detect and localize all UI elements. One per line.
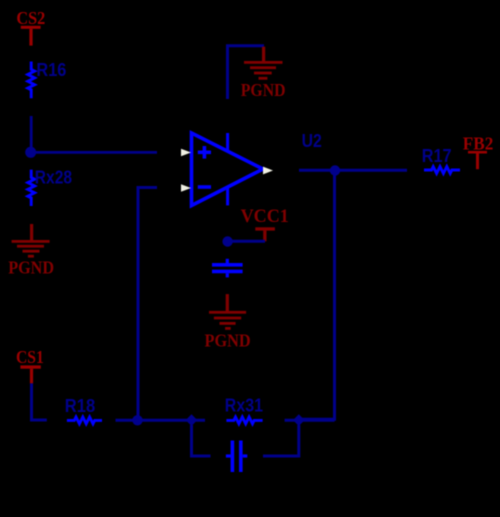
node: [186, 414, 198, 426]
ground PGND top: [241, 47, 286, 100]
input pin arrow (+): [181, 149, 191, 156]
svg-text:PGND: PGND: [241, 80, 286, 100]
svg-text:PGND: PGND: [8, 258, 54, 278]
svg-text:Rx31: Rx31: [225, 396, 263, 416]
resistor Rx31: [226, 417, 262, 424]
port CS1: [16, 347, 44, 383]
svg-text:PGND: PGND: [205, 330, 251, 350]
svg-text:Rx28: Rx28: [35, 167, 72, 187]
svg-text:U2: U2: [302, 131, 322, 151]
wire: [285, 419, 335, 422]
node: [222, 236, 232, 246]
svg-text:CS2: CS2: [16, 8, 45, 28]
port symbol CS1: [20, 365, 40, 368]
ground stem: [30, 224, 33, 241]
ground PGND middle: [205, 294, 251, 350]
svg-text:R17: R17: [422, 146, 452, 166]
ground bars: [244, 61, 283, 64]
wire: [30, 116, 33, 152]
power bar symbol: [255, 227, 275, 230]
port symbol CS2: [21, 26, 41, 29]
wire: [299, 169, 407, 172]
node: [25, 147, 36, 158]
capacitor Cx (bottom): [226, 441, 247, 473]
capacitor C (VCC1 decoupling): [212, 259, 243, 278]
port CS2: [16, 8, 45, 46]
wire: [228, 240, 265, 243]
ground PGND left: [8, 224, 54, 278]
resistor R17: [424, 167, 460, 174]
node: [132, 415, 142, 425]
wire: [192, 425, 211, 456]
wire (inverting input feedback): [138, 188, 157, 421]
ground bars: [12, 240, 50, 243]
ground stem: [262, 47, 265, 62]
input pin arrow (-): [181, 184, 191, 191]
port FB2: [463, 134, 494, 170]
output pin arrow: [263, 167, 273, 175]
svg-text:R16: R16: [36, 60, 66, 80]
svg-text:CS1: CS1: [16, 347, 44, 367]
ground stem: [226, 294, 229, 311]
wire: [228, 46, 265, 99]
wire: [32, 383, 47, 420]
power VCC1: [241, 206, 289, 241]
wire: [263, 425, 299, 456]
wire: [31, 151, 157, 154]
ground bars: [209, 311, 246, 314]
node: [330, 165, 340, 175]
resistor R16: [28, 62, 35, 99]
power pin (bottom): [226, 188, 229, 205]
op-amp triangle body: [192, 133, 264, 206]
svg-text:FB2: FB2: [463, 134, 494, 154]
port symbol FB2: [468, 151, 487, 154]
minus sign (inverting input): [198, 185, 211, 189]
op-amp U2: [181, 133, 273, 206]
wire: [300, 175, 335, 419]
resistor R18: [67, 417, 102, 424]
power pin (top): [226, 133, 229, 151]
resistor Rx28: [28, 170, 35, 206]
svg-text:R18: R18: [65, 396, 95, 416]
svg-text:VCC1: VCC1: [241, 206, 289, 227]
node: [293, 414, 305, 426]
wire: [116, 419, 206, 422]
plus sign (non-inverting input): [198, 151, 211, 155]
